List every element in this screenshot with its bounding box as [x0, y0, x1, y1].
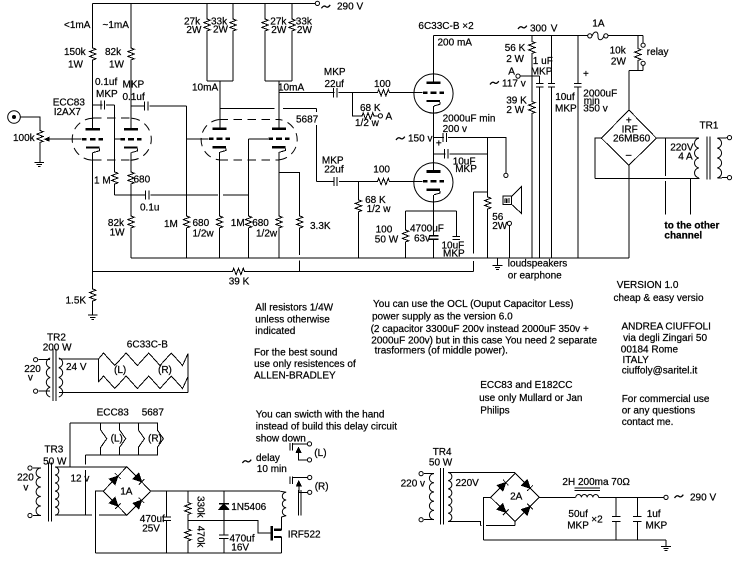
wire cap to 5687 grid column: [149, 105, 186, 107]
transformer TR3: [28, 463, 59, 522]
svg-text:5687: 5687: [296, 115, 319, 126]
svg-text:relay: relay: [647, 47, 669, 58]
svg-text:+: +: [583, 69, 589, 80]
svg-text:VERSION 1.0: VERSION 1.0: [617, 280, 679, 291]
svg-text:(L): (L): [314, 448, 326, 459]
heater ECC83 L2: [120, 423, 126, 455]
node A terminal upper: [378, 114, 382, 118]
svg-text:ciuffoly@saritel.it: ciuffoly@saritel.it: [622, 366, 698, 377]
triode V1a elements: [82, 128, 103, 153]
svg-text:470k: 470k: [195, 526, 206, 549]
heater 6C33C row L: [98, 353, 188, 366]
wire jack to pot: [20, 117, 40, 130]
label delay 10 min: [242, 460, 251, 463]
wire wiper arrow to grid: [47, 138, 82, 140]
wire 680 to junction: [130, 185, 132, 215]
svg-text:MKP: MKP: [531, 67, 553, 78]
wire 56K divider drop: [531, 35, 533, 40]
capacitor MKP 22uf upper: [334, 88, 337, 97]
transformer TR2: [34, 349, 63, 401]
wire 27k B down: [264, 32, 266, 81]
svg-text:2W: 2W: [186, 25, 202, 36]
svg-text:cheap & easy versio: cheap & easy versio: [614, 293, 704, 304]
svg-text:channel: channel: [664, 231, 702, 242]
svg-text:or any questions: or any questions: [622, 406, 695, 417]
svg-text:200 mA: 200 mA: [438, 38, 473, 49]
triode V1b elements: [121, 128, 142, 153]
wire TR2 secondary top: [59, 358, 99, 360]
wire 27k drop A: [206, 4, 208, 18]
wire top B+ rail 290V: [93, 3, 316, 5]
label 117 v: [490, 81, 499, 84]
wire 10uF MKP lower drop: [455, 211, 457, 236]
wire 150k drop: [92, 4, 94, 47]
svg-text:v: v: [28, 373, 33, 384]
tube 6C33C lower envelope: [414, 163, 453, 202]
wire V1b grid column down: [114, 105, 116, 171]
wire TR3 secondary top to bridge: [55, 466, 127, 468]
diode bridge1 BR: [133, 498, 144, 509]
svg-text:0.1uf: 0.1uf: [123, 92, 145, 103]
wire feedback bus 2 left: [93, 270, 232, 272]
node contact R terminals: [308, 475, 312, 494]
wire plate drop 5687b: [278, 81, 280, 128]
svg-text:For the best sound: For the best sound: [254, 348, 337, 359]
wire 1.5K to ground: [92, 302, 94, 315]
wire 1M to bus: [186, 229, 188, 258]
svg-text:2 W: 2 W: [506, 54, 524, 65]
wire 6C33C lower cathode lead: [433, 195, 435, 236]
wire 100 to grid: [391, 92, 423, 94]
wire y195 crossover to right grid: [187, 194, 219, 196]
diode bridge2 TR: [522, 480, 533, 491]
svg-text:MKP: MKP: [324, 67, 346, 78]
svg-text:2000uF min: 2000uF min: [443, 114, 496, 125]
heater ECC83 L1: [101, 423, 107, 455]
svg-text:ECC83: ECC83: [97, 408, 130, 419]
svg-text:A: A: [508, 67, 515, 78]
wire 82k to plate node: [130, 61, 132, 106]
resistor 100k pot: [37, 130, 43, 144]
svg-text:1 M: 1 M: [94, 176, 111, 187]
svg-text:1M: 1M: [231, 218, 245, 229]
resistor 3.3K: [297, 215, 303, 229]
wire 5687b grid lead: [249, 138, 269, 140]
relay contact: [641, 35, 645, 70]
svg-text:0.1u: 0.1u: [140, 203, 159, 214]
svg-text:(2 capacitor 3300uF 200v inste: (2 capacitor 3300uF 200v instead 2000uF …: [371, 324, 589, 335]
svg-text:12 v: 12 v: [71, 474, 90, 485]
tube 5687 envelope: [201, 120, 297, 160]
svg-text:1A: 1A: [592, 19, 605, 30]
wire V1a plate lead: [92, 105, 94, 129]
wire bridge left vertex: [595, 138, 601, 178]
svg-text:56 K: 56 K: [505, 43, 526, 54]
svg-text:ANDREA CIUFFOLI: ANDREA CIUFFOLI: [622, 322, 711, 333]
label 150 v: [396, 137, 405, 140]
wire junction y195 left: [115, 194, 147, 196]
wire bottom tie A: [207, 80, 233, 82]
wire choke to 290V terminal: [599, 496, 664, 498]
resistor 680 1/2w 5687a: [216, 215, 222, 229]
svg-text:5687: 5687: [142, 408, 165, 419]
svg-text:or earphone: or earphone: [508, 271, 562, 282]
svg-text:10k: 10k: [610, 46, 627, 57]
resistor 1M 5687b: [245, 215, 251, 229]
wire pot to ground: [39, 144, 41, 163]
capacitor MKP 0.1uf: [145, 101, 148, 110]
capacitor 0.1u: [146, 190, 149, 199]
wire cap 0.1u right: [150, 194, 186, 196]
wire 82k drop: [130, 4, 132, 47]
wire 10uF branch: [434, 153, 446, 155]
svg-text:1/2 w: 1/2 w: [355, 118, 380, 129]
wire heater dropper: [84, 455, 86, 515]
wire plate A to lower coupling: [220, 108, 274, 110]
wire heater rail bottom: [85, 454, 158, 456]
wire cap to grid column: [106, 104, 115, 106]
svg-text:(R): (R): [148, 434, 162, 445]
triode 5687a elements: [209, 128, 230, 153]
ground psu2: [661, 540, 671, 550]
svg-text:All resistors 1/4W: All resistors 1/4W: [255, 303, 333, 314]
capacitor 0.1uf MKP: [101, 100, 104, 109]
wire plate drop 5687a: [219, 81, 221, 128]
svg-text:39 K: 39 K: [229, 277, 250, 288]
wire 680 to bus: [219, 229, 221, 258]
wire 33k drop A: [232, 4, 234, 18]
svg-text:6C33C-B ×2: 6C33C-B ×2: [418, 21, 474, 32]
svg-text:via degli Zingari 50: via degli Zingari 50: [623, 333, 707, 344]
svg-text:2W: 2W: [213, 25, 229, 36]
svg-text:MKP: MKP: [96, 89, 118, 100]
node contact L terminals: [307, 442, 311, 462]
wire 68K branch upper: [353, 93, 361, 116]
svg-text:indicated: indicated: [255, 326, 295, 337]
fuse 1A: [588, 32, 608, 40]
relay contact R: [290, 477, 307, 493]
svg-text:You can use the OCL (Ouput Cap: You can use the OCL (Ouput Capacitor Les…: [373, 299, 573, 310]
svg-text:use only Mullard or Jan: use only Mullard or Jan: [479, 393, 582, 404]
wire TR4 secondary bottom: [448, 522, 480, 526]
svg-text:1W: 1W: [110, 228, 126, 239]
wire 27k A down: [206, 32, 208, 81]
capacitor 10uF MKP output: [445, 149, 448, 158]
svg-text:290 V: 290 V: [690, 493, 716, 504]
rectifier bridge 2A: [491, 473, 540, 521]
svg-text:use only resistences of: use only resistences of: [254, 359, 356, 370]
svg-text:6C33C-B: 6C33C-B: [127, 340, 168, 351]
transformer TR1: [695, 137, 728, 180]
resistor 680 1/2w 5687b: [276, 215, 282, 229]
wire 330k drop: [187, 491, 189, 501]
svg-text:3.3K: 3.3K: [310, 221, 331, 232]
node output terminal: [504, 173, 508, 177]
svg-text:22uf: 22uf: [324, 165, 344, 176]
svg-text:300 V: 300 V: [530, 24, 558, 35]
wire V1b cathode lead: [130, 153, 132, 171]
diode 1N5406: [219, 491, 229, 520]
resistor 82k 1W lower: [128, 215, 134, 229]
svg-text:10uf: 10uf: [555, 92, 575, 103]
svg-text:25V: 25V: [142, 524, 160, 535]
svg-text:loudspeakers: loudspeakers: [508, 259, 567, 270]
wire 100 50W to bus: [405, 243, 407, 258]
svg-text:50 W: 50 W: [43, 457, 67, 468]
svg-text:ITALY: ITALY: [623, 355, 650, 366]
svg-text:1W: 1W: [109, 60, 125, 71]
wire 100 50W drop: [405, 211, 407, 229]
wire 33k drop B: [291, 4, 293, 18]
svg-text:1/2w: 1/2w: [193, 229, 215, 240]
transistor IRF522: [272, 517, 282, 553]
wire feedback bus 2 right: [246, 270, 474, 272]
wire TR3 secondary bottom to bridge: [55, 514, 127, 516]
triode 6C33C upper elements: [423, 81, 444, 106]
resistor 39 K 2 W: [529, 101, 535, 115]
svg-text:1A: 1A: [120, 487, 133, 498]
svg-text:10mA: 10mA: [192, 83, 218, 94]
heater 5687 R2: [157, 423, 163, 455]
wire 10uF to x487.7: [450, 153, 488, 155]
wire delay mid: [188, 521, 270, 533]
wire V1b grid stub: [115, 138, 121, 140]
wire 100 to lower grid: [391, 181, 423, 183]
wire 3.3K hop to lower bus: [299, 229, 301, 255]
diode bridge1 BL: [109, 498, 120, 509]
svg-text:117 v: 117 v: [502, 79, 526, 90]
rectifier bridge 1A: [103, 467, 150, 515]
wire plate V1a to cap: [93, 104, 103, 106]
resistor 56 2W: [485, 196, 491, 210]
capacitor 2000uF min 350 v: [574, 35, 581, 258]
wire 33k A down: [232, 32, 234, 81]
capacitor 10uf MKP psu: [548, 35, 555, 258]
resistor 330k: [185, 502, 191, 516]
svg-text:16V: 16V: [231, 543, 249, 554]
svg-text:100k: 100k: [13, 133, 36, 144]
relay core: [299, 490, 301, 516]
wire output node to 2000uF: [434, 136, 444, 138]
wire psu2 ground rail: [484, 539, 667, 541]
svg-text:I2AX7: I2AX7: [54, 107, 82, 118]
svg-text:50uf: 50uf: [568, 509, 588, 520]
svg-text:200 v: 200 v: [443, 124, 467, 135]
wire 1M to bus: [248, 229, 250, 258]
wire 6C33C upper plate lead: [433, 35, 435, 82]
svg-text:~1mA: ~1mA: [103, 20, 130, 31]
wire 2000uF to output terminal: [448, 137, 506, 173]
svg-text:ECC83 and E182CC: ECC83 and E182CC: [480, 380, 572, 391]
relay contact L: [290, 443, 307, 460]
wire TR2 secondary bottom: [59, 392, 188, 394]
label 300 V: [518, 26, 527, 29]
svg-text:100: 100: [373, 165, 390, 176]
node A terminal psu: [516, 74, 520, 78]
svg-text:1N5406: 1N5406: [231, 502, 266, 513]
svg-text:1W: 1W: [68, 60, 84, 71]
svg-text:MKP: MKP: [455, 164, 477, 175]
svg-text:Philips: Philips: [480, 406, 509, 417]
capacitor 470uf 25V: [162, 491, 171, 553]
svg-text:2W: 2W: [271, 25, 287, 36]
wire heater rail ECC83 5687 top: [70, 422, 158, 424]
wire 1M bottom bend: [114, 185, 116, 195]
wire 39K to bus: [531, 115, 533, 258]
svg-text:unless otherwise: unless otherwise: [255, 314, 330, 325]
svg-text:1M: 1M: [164, 219, 178, 230]
svg-text:power supply as the version 6.: power supply as the version 6.0: [372, 312, 513, 323]
svg-text:contact me.: contact me.: [622, 417, 674, 428]
wire x487.7 column: [487, 137, 489, 196]
wire other channel tap A: [664, 138, 666, 214]
svg-text:350 v: 350 v: [583, 104, 607, 115]
resistor 39 K: [232, 268, 246, 274]
wire feedback drop: [472, 192, 474, 272]
capacitor 470uf 16V: [219, 521, 228, 553]
ground 1.5K: [88, 315, 98, 319]
relay coil: [280, 491, 286, 517]
svg-text:MKP: MKP: [646, 521, 668, 532]
wire divider mid: [531, 55, 533, 101]
wire to A terminal: [375, 115, 378, 117]
wire 33k B down: [291, 32, 293, 81]
resistor 56 K 2 W: [529, 41, 535, 55]
node 290V output terminal: [664, 495, 668, 499]
wire 27k drop B: [264, 4, 266, 18]
label 290 V output: [675, 495, 684, 498]
diode bridge2 BR: [522, 504, 533, 515]
capacitor 4700uF 63v: [429, 236, 439, 239]
wire 300V rail: [434, 34, 588, 36]
wire bridge right vertex: [656, 137, 698, 139]
capacitor 1uf MKP: [633, 497, 642, 540]
diode bridge2 TL: [497, 480, 508, 491]
wire 5687b grid column: [248, 139, 250, 215]
capacitor 50uf MKP x2: [612, 497, 621, 540]
resistor 68 K 1/2 w lower: [355, 199, 361, 213]
svg-text:63v: 63v: [414, 234, 430, 245]
resistor 27k 2W B: [262, 18, 268, 32]
svg-text:50 W: 50 W: [375, 235, 399, 246]
wire bus2 to 1.5K: [92, 271, 94, 288]
svg-text:10mA: 10mA: [278, 83, 304, 94]
tube 6C33C upper envelope: [414, 74, 453, 113]
capacitor 10uF MKP lower: [453, 236, 460, 239]
svg-text:–: –: [626, 150, 632, 161]
wire heater right tie: [187, 354, 189, 393]
svg-text:1/2 w: 1/2 w: [367, 204, 392, 215]
wire grid bus x186.5: [186, 106, 188, 215]
wire speaker terminal to bus: [508, 226, 510, 258]
svg-text:IRF522: IRF522: [288, 530, 321, 541]
loudspeaker: [503, 187, 521, 214]
svg-text:MKP: MKP: [555, 104, 577, 115]
svg-text:2H 200ma 70Ω: 2H 200ma 70Ω: [562, 477, 630, 488]
svg-text:00184 Rome: 00184 Rome: [621, 345, 679, 356]
wire 10k bottom: [637, 62, 639, 71]
svg-text:680: 680: [193, 218, 210, 229]
svg-text:TR1: TR1: [700, 121, 719, 132]
heater 5687 R1: [138, 423, 144, 455]
svg-text:TR3: TR3: [44, 445, 63, 456]
wire to bridge2 bottom vertex: [481, 522, 516, 526]
wire other channel tap B: [690, 179, 692, 215]
wire bridge minus to bus: [628, 165, 630, 258]
resistor 1M x186.5: [183, 215, 189, 229]
wire 5687a cathode lead: [219, 152, 221, 215]
svg-text:330k: 330k: [195, 496, 206, 519]
wire 4700uF to bus: [433, 240, 435, 258]
wire y191.8 to feedback: [473, 191, 487, 193]
svg-text:1/2w: 1/2w: [256, 229, 278, 240]
wire 6C33C upper cathode lead: [433, 106, 435, 170]
svg-text:(R): (R): [158, 365, 172, 376]
wire 330k bottom: [187, 516, 189, 521]
svg-text:220 v: 220 v: [401, 479, 425, 490]
wire cap to junction: [339, 92, 377, 94]
svg-text:(R): (R): [315, 482, 329, 493]
node TR1 secondary terminal top: [727, 136, 731, 140]
wire heater left tie: [97, 359, 99, 382]
resistor 100 50 W: [402, 229, 408, 243]
svg-text:680: 680: [134, 175, 151, 186]
wire 68K lower to bus: [357, 213, 359, 258]
wire plate V1b to cap: [131, 105, 145, 107]
svg-text:2A: 2A: [510, 492, 523, 503]
wire 68K lower drop: [357, 182, 359, 199]
svg-text:trasformers (of middle power).: trasformers (of middle power).: [375, 346, 508, 357]
svg-text:2 W: 2 W: [506, 105, 524, 116]
wire AC return y178.6: [595, 178, 699, 180]
wire relay bottom tie: [629, 71, 643, 110]
wire bridge2 left vertex down: [484, 497, 491, 540]
wire +12 rail: [151, 490, 281, 492]
svg-text:A: A: [386, 112, 393, 123]
svg-text:10 min: 10 min: [257, 464, 287, 475]
svg-text:MKP: MKP: [443, 249, 465, 260]
capacitor 1 uF MKP: [536, 76, 543, 258]
resistor 150k 1W: [90, 47, 96, 61]
wire 5687b cathode lead: [279, 152, 300, 215]
wire 680b to bus: [278, 229, 280, 258]
wire TR4 secondary top to bridge: [448, 472, 515, 474]
svg-text:You can swicth with the hand: You can swicth with the hand: [256, 410, 385, 421]
wire plate B to upper coupling: [279, 92, 334, 94]
node speaker terminal: [507, 221, 511, 225]
wire 5687a grid lead: [187, 138, 209, 140]
svg-text:50 W: 50 W: [429, 458, 453, 469]
svg-text:0.1uf: 0.1uf: [95, 77, 117, 88]
triode 5687b elements: [269, 128, 290, 153]
svg-text:150k: 150k: [64, 47, 87, 58]
resistor 1.5K: [90, 288, 96, 302]
svg-text:200 W: 200 W: [43, 343, 72, 354]
resistor 33k 2W A: [230, 18, 236, 32]
resistor 100 lower grid stopper: [377, 178, 391, 184]
svg-text:290 V: 290 V: [337, 2, 363, 13]
transformer TR4: [419, 468, 452, 525]
svg-text:delay: delay: [256, 453, 280, 464]
wire 5687b cathode down: [278, 172, 280, 215]
resistor 27k 2W A: [204, 18, 210, 32]
svg-text:For commercial use: For commercial use: [622, 394, 710, 405]
svg-text:82k: 82k: [105, 47, 122, 58]
inductor choke 2H 200ma 70ohm: [575, 488, 600, 497]
resistor 470k: [185, 521, 191, 553]
svg-text:<1mA: <1mA: [64, 20, 91, 31]
wire 56 to bus: [487, 210, 489, 258]
